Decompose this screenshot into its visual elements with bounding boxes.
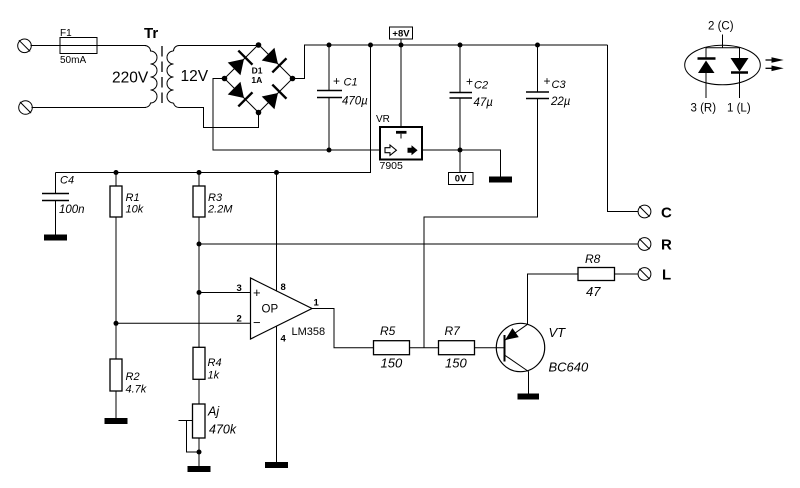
bridge diode D1c (left-bottom)	[227, 81, 252, 106]
regulator VR box	[380, 127, 422, 160]
svg-text:1k: 1k	[208, 370, 220, 382]
resistor R8	[578, 268, 638, 281]
svg-text:+: +	[253, 285, 261, 300]
LED chip L (down diode)	[731, 58, 749, 73]
resistor R5	[374, 341, 439, 355]
transformer Tr primary winding	[145, 46, 158, 108]
LED common lead 2C	[706, 35, 740, 59]
svg-text:R: R	[661, 237, 672, 254]
wire fuse to transformer	[97, 45, 146, 47]
svg-text:22µ: 22µ	[550, 96, 571, 108]
transistor VT collector diagonal	[505, 355, 529, 372]
node pin2	[114, 321, 119, 326]
node C2 top	[458, 43, 463, 48]
svg-text:R3: R3	[208, 192, 223, 204]
node bridge right	[290, 76, 296, 82]
transistor VT emitter diagonal	[505, 324, 528, 340]
transformer Tr core	[161, 46, 163, 105]
resistor R2	[110, 359, 122, 418]
trimmer Aj body	[193, 404, 206, 466]
svg-text:7905: 7905	[380, 160, 404, 172]
bridge diode D1a (left-top)	[227, 51, 252, 76]
wire secondary bottom jog to bridge bottom node	[179, 108, 259, 128]
LED envelope ellipse	[685, 45, 761, 85]
svg-text:1 (L): 1 (L)	[727, 103, 751, 115]
fuse F1	[60, 38, 97, 54]
svg-text:47: 47	[586, 284, 601, 299]
svg-text:C: C	[661, 205, 672, 222]
node bridge bottom	[256, 110, 262, 116]
LED chip R (up diode)	[698, 59, 716, 74]
svg-text:1A: 1A	[251, 75, 262, 85]
svg-text:R8: R8	[585, 252, 601, 266]
ground C4	[44, 235, 67, 241]
op-amp pin8 lead	[276, 173, 278, 292]
resistor R4	[193, 347, 205, 404]
svg-text:1: 1	[314, 298, 320, 309]
capacitor C2	[450, 45, 473, 173]
wire collector to ground	[528, 372, 530, 394]
wire terminal2 to transformer	[32, 107, 147, 109]
svg-text:2 (C): 2 (C)	[708, 21, 734, 33]
svg-text:10k: 10k	[126, 204, 144, 216]
wire bridge right node up to +8V rail	[293, 45, 608, 79]
svg-text:C4: C4	[60, 175, 74, 187]
wire R row to terminal R	[199, 243, 638, 245]
svg-text:4.7k: 4.7k	[126, 384, 147, 396]
terminal R	[638, 238, 651, 251]
svg-text:100n: 100n	[59, 204, 85, 216]
node bridge top	[256, 42, 262, 48]
VR internal ground tab	[396, 131, 407, 134]
svg-text:12V: 12V	[181, 68, 209, 85]
node pin3	[197, 290, 202, 295]
terminal input bottom	[19, 101, 33, 115]
capacitor C1	[317, 45, 342, 150]
wire C3 bottom jog down to R5/R7 node	[424, 99, 538, 348]
0V tag lead	[459, 150, 461, 173]
svg-text:R7: R7	[445, 324, 462, 338]
wire +8V rail to rail2 drop	[56, 45, 371, 173]
op-amp pin4 lead	[276, 326, 278, 462]
svg-text:Tr: Tr	[144, 25, 158, 42]
LED cathode lead 3R	[705, 73, 707, 98]
ground symbols (filled bars)	[44, 177, 539, 473]
svg-text:0V: 0V	[455, 174, 467, 185]
bridge rectifier D1 diamond frame	[225, 45, 293, 113]
svg-text:2: 2	[237, 314, 242, 325]
resistor R1	[110, 173, 122, 360]
VR output wire to ground drop	[422, 150, 501, 177]
+8V tag box	[390, 27, 413, 39]
node bridge left	[222, 76, 228, 82]
svg-text:C1: C1	[344, 77, 358, 89]
svg-text:F1: F1	[60, 28, 72, 39]
svg-text:150: 150	[381, 356, 403, 371]
wire pin3 row	[199, 292, 251, 294]
svg-text:470k: 470k	[209, 423, 237, 437]
node C3 top	[535, 43, 540, 48]
svg-text:+: +	[333, 74, 340, 88]
svg-text:VR: VR	[376, 114, 390, 125]
svg-text:150: 150	[445, 356, 467, 371]
svg-text:OP: OP	[262, 304, 279, 316]
svg-text:3 (R): 3 (R)	[691, 103, 717, 115]
bridge diode D1b (top-right)	[261, 47, 286, 72]
node C1 bottom	[327, 148, 332, 153]
wire secondary top to bridge top node	[179, 45, 259, 47]
svg-text:3: 3	[237, 283, 242, 294]
svg-text:C2: C2	[474, 80, 488, 92]
svg-text:2.2M: 2.2M	[207, 204, 233, 216]
wire +8V rail right drop to terminal C	[608, 45, 639, 212]
0V tag box	[449, 173, 474, 185]
LED emission arrows	[766, 57, 784, 71]
svg-text:LM358: LM358	[292, 326, 326, 338]
wire bridge left node down to VR input rail	[213, 79, 380, 151]
resistor R7	[439, 341, 505, 355]
trimmer Aj wiper	[179, 421, 200, 453]
node R3 top	[197, 170, 202, 175]
svg-text:Aj: Aj	[207, 405, 220, 419]
wire terminal1 to fuse	[31, 45, 61, 47]
svg-text:R1: R1	[126, 192, 140, 204]
LED anode lead 1L	[739, 73, 741, 99]
+8V tag lead	[400, 39, 402, 45]
node +8V tag	[399, 43, 404, 48]
transformer Tr secondary winding	[167, 46, 179, 108]
node R1 top	[114, 170, 119, 175]
svg-text:L: L	[662, 267, 671, 284]
node pin8 top	[274, 170, 279, 175]
svg-text:R5: R5	[380, 324, 396, 338]
svg-text:47µ: 47µ	[474, 97, 494, 109]
node R row	[197, 242, 202, 247]
ground R2	[105, 418, 128, 424]
VR ground-pin lead from rail	[400, 45, 402, 131]
svg-text:VT: VT	[549, 325, 567, 340]
svg-text:−: −	[253, 315, 261, 330]
op-amp U1 triangle	[251, 278, 313, 339]
capacitor C4	[42, 173, 69, 235]
node C2 bottom / VR out	[458, 148, 463, 153]
VR input arrow (hollow)	[385, 145, 396, 155]
svg-text:220V: 220V	[112, 70, 149, 87]
svg-text:C3: C3	[552, 79, 567, 91]
svg-text:R2: R2	[126, 371, 140, 383]
svg-text:470µ: 470µ	[342, 96, 368, 108]
svg-text:8: 8	[281, 282, 286, 293]
transistor VT base bar	[504, 335, 506, 362]
node rail2 drop top	[368, 43, 373, 48]
svg-text:+8V: +8V	[392, 29, 410, 40]
transistor VT arrow	[502, 328, 519, 344]
node Aj wiper	[197, 450, 202, 455]
svg-text:+: +	[544, 74, 551, 88]
ground Aj	[188, 466, 211, 472]
ground op-amp pin4	[265, 462, 288, 468]
ground transistor collector	[518, 394, 540, 400]
resistor R3	[193, 173, 205, 348]
svg-text:4: 4	[281, 334, 287, 345]
node C1 top	[327, 43, 332, 48]
wire pin2 row	[116, 322, 251, 324]
VR output arrow (solid)	[408, 145, 418, 155]
capacitor C3	[526, 45, 549, 99]
terminal L	[638, 268, 651, 281]
op-amp output wire to R5	[312, 309, 374, 348]
svg-text:BC640: BC640	[549, 360, 590, 375]
terminal C	[638, 205, 651, 218]
ground VR area	[489, 177, 512, 183]
svg-text:R4: R4	[208, 357, 222, 369]
wire emitter to R8 row	[528, 274, 579, 324]
bridge diode D1d (bottom-right)	[261, 85, 286, 110]
transistor VT circle	[496, 323, 544, 371]
svg-text:50mA: 50mA	[60, 55, 86, 66]
terminal input top	[18, 39, 32, 53]
svg-text:+: +	[466, 75, 473, 89]
